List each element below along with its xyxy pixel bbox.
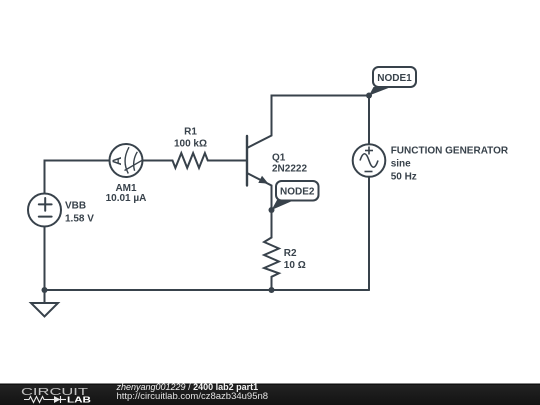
svg-text:R1: R1 (184, 126, 197, 137)
svg-text:R2: R2 (284, 248, 297, 259)
svg-text:10.01 µA: 10.01 µA (106, 193, 147, 204)
svg-text:NODE1: NODE1 (377, 73, 412, 84)
svg-text:A: A (110, 156, 124, 165)
svg-text:NODE2: NODE2 (280, 187, 315, 198)
svg-text:100 kΩ: 100 kΩ (174, 138, 207, 149)
svg-text:VBB: VBB (65, 201, 86, 212)
svg-text:sine: sine (391, 159, 411, 170)
svg-text:LAB: LAB (67, 396, 91, 405)
svg-text:10 Ω: 10 Ω (284, 260, 306, 271)
svg-text:http://circuitlab.com/cz8azb34: http://circuitlab.com/cz8azb34u95n8 (117, 391, 269, 402)
svg-text:FUNCTION GENERATOR: FUNCTION GENERATOR (391, 146, 509, 157)
svg-text:1.58 V: 1.58 V (65, 214, 94, 225)
svg-text:2N2222: 2N2222 (272, 163, 307, 174)
svg-text:Q1: Q1 (272, 153, 286, 164)
svg-text:50 Hz: 50 Hz (391, 172, 417, 183)
